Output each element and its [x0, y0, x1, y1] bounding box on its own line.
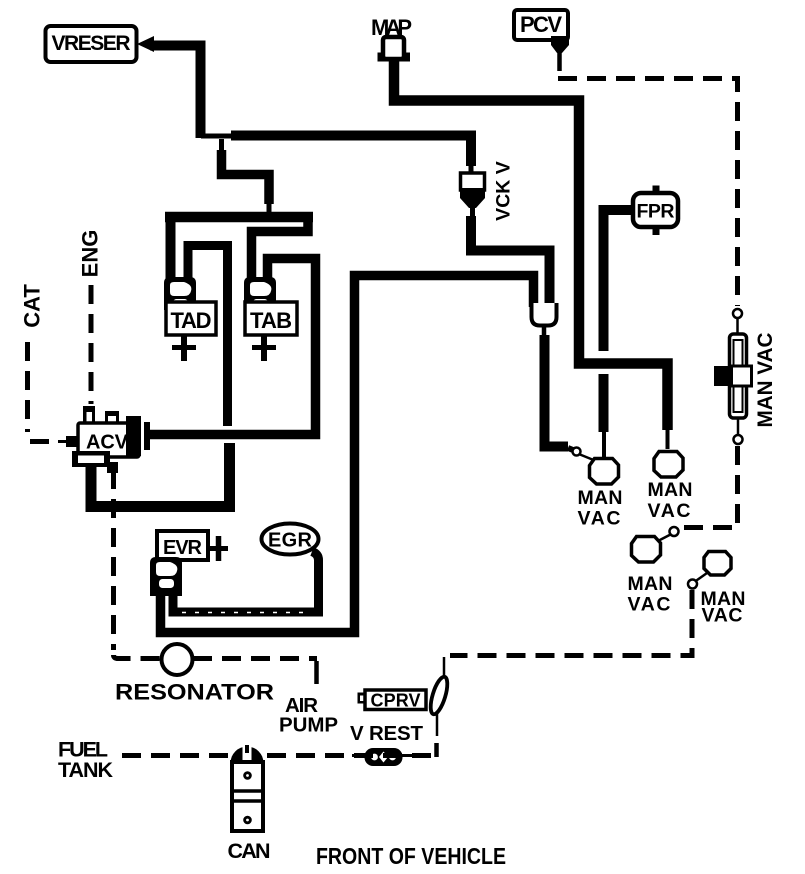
MAN VAC tee fitting: [714, 334, 752, 418]
svg-text:VCK V: VCK V: [493, 161, 515, 221]
FPR box: [633, 186, 678, 236]
inner EGR loop hose: [173, 552, 319, 613]
svg-text:VAC: VAC: [648, 500, 691, 522]
svg-text:VAC: VAC: [628, 594, 671, 616]
MAN VAC hexagon 3: [632, 537, 661, 563]
dashed hose fuel tank line: [122, 753, 436, 758]
svg-text:CAT: CAT: [20, 284, 45, 328]
wire TAB connector to ACV outlet hose: [148, 259, 316, 435]
EGR oval: [262, 524, 319, 555]
svg-text:TAB: TAB: [250, 308, 292, 333]
dashed hose MAN VAC 4 to CPRV: [450, 590, 692, 656]
circle node C: [734, 418, 743, 444]
CPRV purge valve wavy symbol: [427, 657, 450, 757]
svg-text:MAN: MAN: [648, 479, 693, 501]
EVR box: [157, 531, 208, 560]
svg-text:FRONT OF VEHICLE: FRONT OF VEHICLE: [316, 843, 506, 869]
wire junction down to manifold: [222, 139, 270, 214]
circle node B: [733, 309, 742, 334]
dashed hose ACV to resonator to air pump: [114, 470, 318, 684]
TAD dagger: [172, 335, 196, 361]
wire FPR to MAN VAC hexagon 1: [604, 210, 634, 457]
svg-text:PCV: PCV: [520, 12, 562, 37]
wire ACV bottom loop: [91, 443, 230, 507]
TAD connector: [164, 277, 196, 310]
svg-text:FPR: FPR: [637, 201, 675, 223]
svg-text:MAN: MAN: [628, 573, 673, 595]
wire junction to VCK V: [231, 136, 471, 167]
svg-text:V REST: V REST: [350, 722, 423, 745]
VRESER box: [46, 26, 137, 62]
wire EVR outer loop to Y-fitting: [161, 276, 534, 633]
svg-text:RESONATOR: RESONATOR: [115, 680, 274, 705]
MAP sensor symbol: [378, 37, 411, 62]
wire TAD connector to ACV lower loop: [188, 246, 228, 427]
PCV box: [514, 10, 568, 40]
TAB box: [245, 302, 297, 335]
circle node D: [656, 527, 679, 542]
Y-fitting node: [532, 303, 557, 337]
TAD box: [166, 302, 216, 335]
arrowhead into VRESER: [137, 36, 154, 52]
VCK V check valve: [460, 164, 485, 218]
svg-text:CPRV: CPRV: [371, 691, 421, 711]
wire MAP to MAN VAC hexagon 2: [394, 59, 668, 449]
TAB connector: [244, 277, 276, 310]
svg-text:ACV: ACV: [86, 432, 129, 454]
manifold bar node: [165, 212, 313, 223]
svg-text:TANK: TANK: [58, 758, 113, 782]
MAN VAC hexagon 2: [654, 452, 683, 478]
EVR connector: [150, 557, 182, 596]
wire Y-fitting to MAN VAC circle node A: [545, 335, 569, 447]
svg-text:TAD: TAD: [171, 308, 212, 333]
svg-text:VAC: VAC: [702, 605, 743, 627]
wire manifold right to TAB connector: [252, 216, 309, 284]
svg-text:ENG: ENG: [78, 230, 103, 278]
svg-text:MAN: MAN: [578, 487, 623, 509]
CPRV box: [358, 690, 427, 711]
svg-text:EVR: EVR: [163, 537, 203, 559]
svg-text:VRESER: VRESER: [52, 32, 131, 55]
svg-text:VAC: VAC: [578, 508, 621, 530]
svg-text:MAN VAC: MAN VAC: [754, 333, 777, 428]
svg-text:CAN: CAN: [228, 839, 271, 863]
PCV connector: [551, 36, 569, 71]
resonator circle: [162, 644, 193, 675]
circle node A: [568, 448, 596, 462]
V REST valve: [352, 748, 424, 766]
dashed hose CAT to ACV: [28, 342, 59, 442]
dashed hose PCV to MAN VAC tee: [558, 79, 738, 307]
dashed hose ENG to ACV: [89, 285, 94, 404]
junction neck node: [201, 134, 234, 139]
wire manifold to TAD connector: [166, 213, 176, 284]
wire VRESER to junction: [150, 46, 201, 139]
CAN canister: [231, 745, 264, 831]
svg-text:EGR: EGR: [268, 530, 313, 552]
AIR PUMP label: [279, 694, 338, 737]
MAN VAC hexagon 1: [590, 459, 619, 485]
dashed hose tee to circle node D: [681, 446, 738, 528]
EVR dagger: [208, 536, 228, 561]
MAN VAC hexagon 4: [704, 552, 731, 576]
ACV valve: [58, 406, 150, 481]
hexagon 4 link and circle node E: [688, 573, 707, 589]
FUEL TANK label: [58, 738, 113, 783]
wire VCK V to Y-fitting: [471, 216, 550, 307]
svg-text:PUMP: PUMP: [279, 714, 338, 737]
TAB dagger: [252, 335, 276, 361]
